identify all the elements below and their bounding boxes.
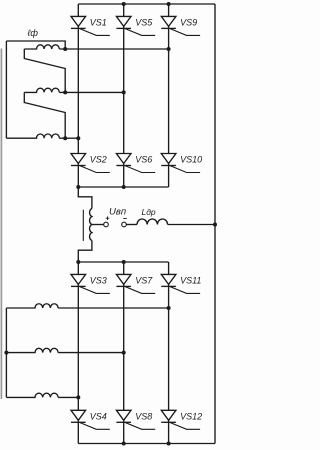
wire upper rectifier cathode bus [78, 186, 168, 188]
wire upper leg VS9/VS10 [168, 4, 170, 187]
wire lower leg VS11/VS12 [168, 262, 170, 444]
label - polarity [123, 217, 127, 219]
node phase a / VS9 leg [167, 47, 171, 51]
wire right bus [214, 4, 216, 444]
wire phase line b (lower) [58, 352, 124, 354]
svg-text:VS9: VS9 [180, 18, 197, 28]
thyristor VS7 [116, 274, 155, 293]
wire top bus [78, 3, 215, 5]
svg-text:VS7: VS7 [135, 276, 153, 286]
svg-text:VS8: VS8 [135, 411, 152, 421]
wire centre tap [92, 224, 104, 226]
inductor Lf winding w2 [24, 88, 65, 92]
node phase b / VS5 leg [122, 90, 126, 94]
svg-text:VS10: VS10 [180, 155, 202, 165]
thyristor VS9 [161, 16, 200, 35]
wire choke to right bus [168, 224, 215, 226]
svg-text:VS12: VS12 [180, 411, 202, 421]
node lower bus junction [4, 351, 8, 355]
svg-text:VS3: VS3 [90, 276, 107, 286]
wire phase line c (upper) [65, 137, 78, 139]
svg-text:VS5: VS5 [135, 18, 153, 28]
inductor Lf winding w1 [24, 45, 65, 49]
node bottom bus / VS12 [167, 442, 171, 446]
thyristor VS8 [116, 410, 155, 429]
svg-text:Lдр: Lдр [142, 207, 156, 217]
inductor lower winding w4 [6, 304, 58, 308]
transformer T winding (vertical, centre-tapped) [90, 209, 92, 241]
label + polarity [106, 216, 110, 220]
wire lower leg VS3/VS4 [77, 262, 79, 444]
node w2 junction [63, 90, 67, 94]
node phase b / VS7 leg [122, 351, 126, 355]
wire lower leg VS7/VS8 [123, 262, 125, 444]
wire phase line b (upper) [65, 91, 124, 93]
wire terminal to smoothing choke [126, 224, 137, 226]
svg-text:VS11: VS11 [180, 276, 201, 286]
thyristor VS1 [71, 16, 110, 35]
wire zigzag link w1-w2 [24, 49, 65, 92]
wire upper leg VS1/VS2 [77, 4, 79, 187]
thyristor VS12 [161, 410, 200, 429]
wire left bus of lower filter [5, 308, 7, 397]
node lower anode bus left [76, 260, 80, 264]
wire link transformer T to lower bus [78, 241, 92, 263]
inductor lower winding w6 [6, 393, 58, 397]
svg-text:VS4: VS4 [90, 411, 107, 421]
node lower anode bus / VS7 [122, 260, 126, 264]
wire phase line a (lower) [58, 307, 169, 309]
terminal - (output) [122, 222, 127, 227]
thyristor VS11 [161, 274, 200, 293]
thyristor VS2 [71, 154, 110, 173]
svg-text:VS1: VS1 [90, 18, 107, 28]
wire phase line c (lower) [58, 396, 78, 398]
svg-text:VS2: VS2 [90, 155, 107, 165]
node upper cathode bus / VS6 [122, 185, 126, 189]
core bar (left, shared magnetic core) [0, 49, 2, 400]
thyristor VS3 [71, 274, 110, 293]
wire link upper bus to transformer T [78, 187, 92, 209]
wire upper leg VS5/VS6 [123, 4, 125, 187]
node right bus / choke [213, 223, 217, 227]
node phase c / VS3 leg [76, 395, 80, 399]
inductor Lf winding w3 [6, 134, 65, 138]
svg-text:Uвп: Uвп [109, 207, 127, 218]
wire left bus of upper filter [5, 41, 7, 138]
svg-text:ℓф: ℓф [27, 28, 39, 38]
wire lower rectifier anode bus [78, 261, 168, 263]
node top bus / VS5 [122, 2, 126, 6]
thyristor VS5 [116, 16, 155, 35]
wire bottom bus [78, 443, 215, 445]
inductor Ldr smoothing choke [137, 219, 168, 224]
thyristor VS4 [71, 410, 110, 429]
wire top link of upper filter [6, 41, 65, 49]
wire phase line a (upper) [65, 48, 168, 50]
thyristor VS6 [116, 154, 155, 173]
node phase a / VS11 leg [167, 306, 171, 310]
node w3 junction [63, 136, 67, 140]
thyristor VS10 [161, 154, 200, 173]
svg-text:VS6: VS6 [135, 155, 152, 165]
node phase c / VS1 leg [76, 136, 80, 140]
node upper cathode bus left [76, 185, 80, 189]
node bottom bus / VS8 [122, 442, 126, 446]
wire zigzag link w2-w3 [24, 92, 65, 138]
transformer T core bar [82, 210, 84, 241]
terminal + (output) [104, 222, 109, 227]
node w1 junction [63, 47, 67, 51]
node top bus / VS9 [167, 2, 171, 6]
inductor lower winding w5 [6, 348, 58, 352]
